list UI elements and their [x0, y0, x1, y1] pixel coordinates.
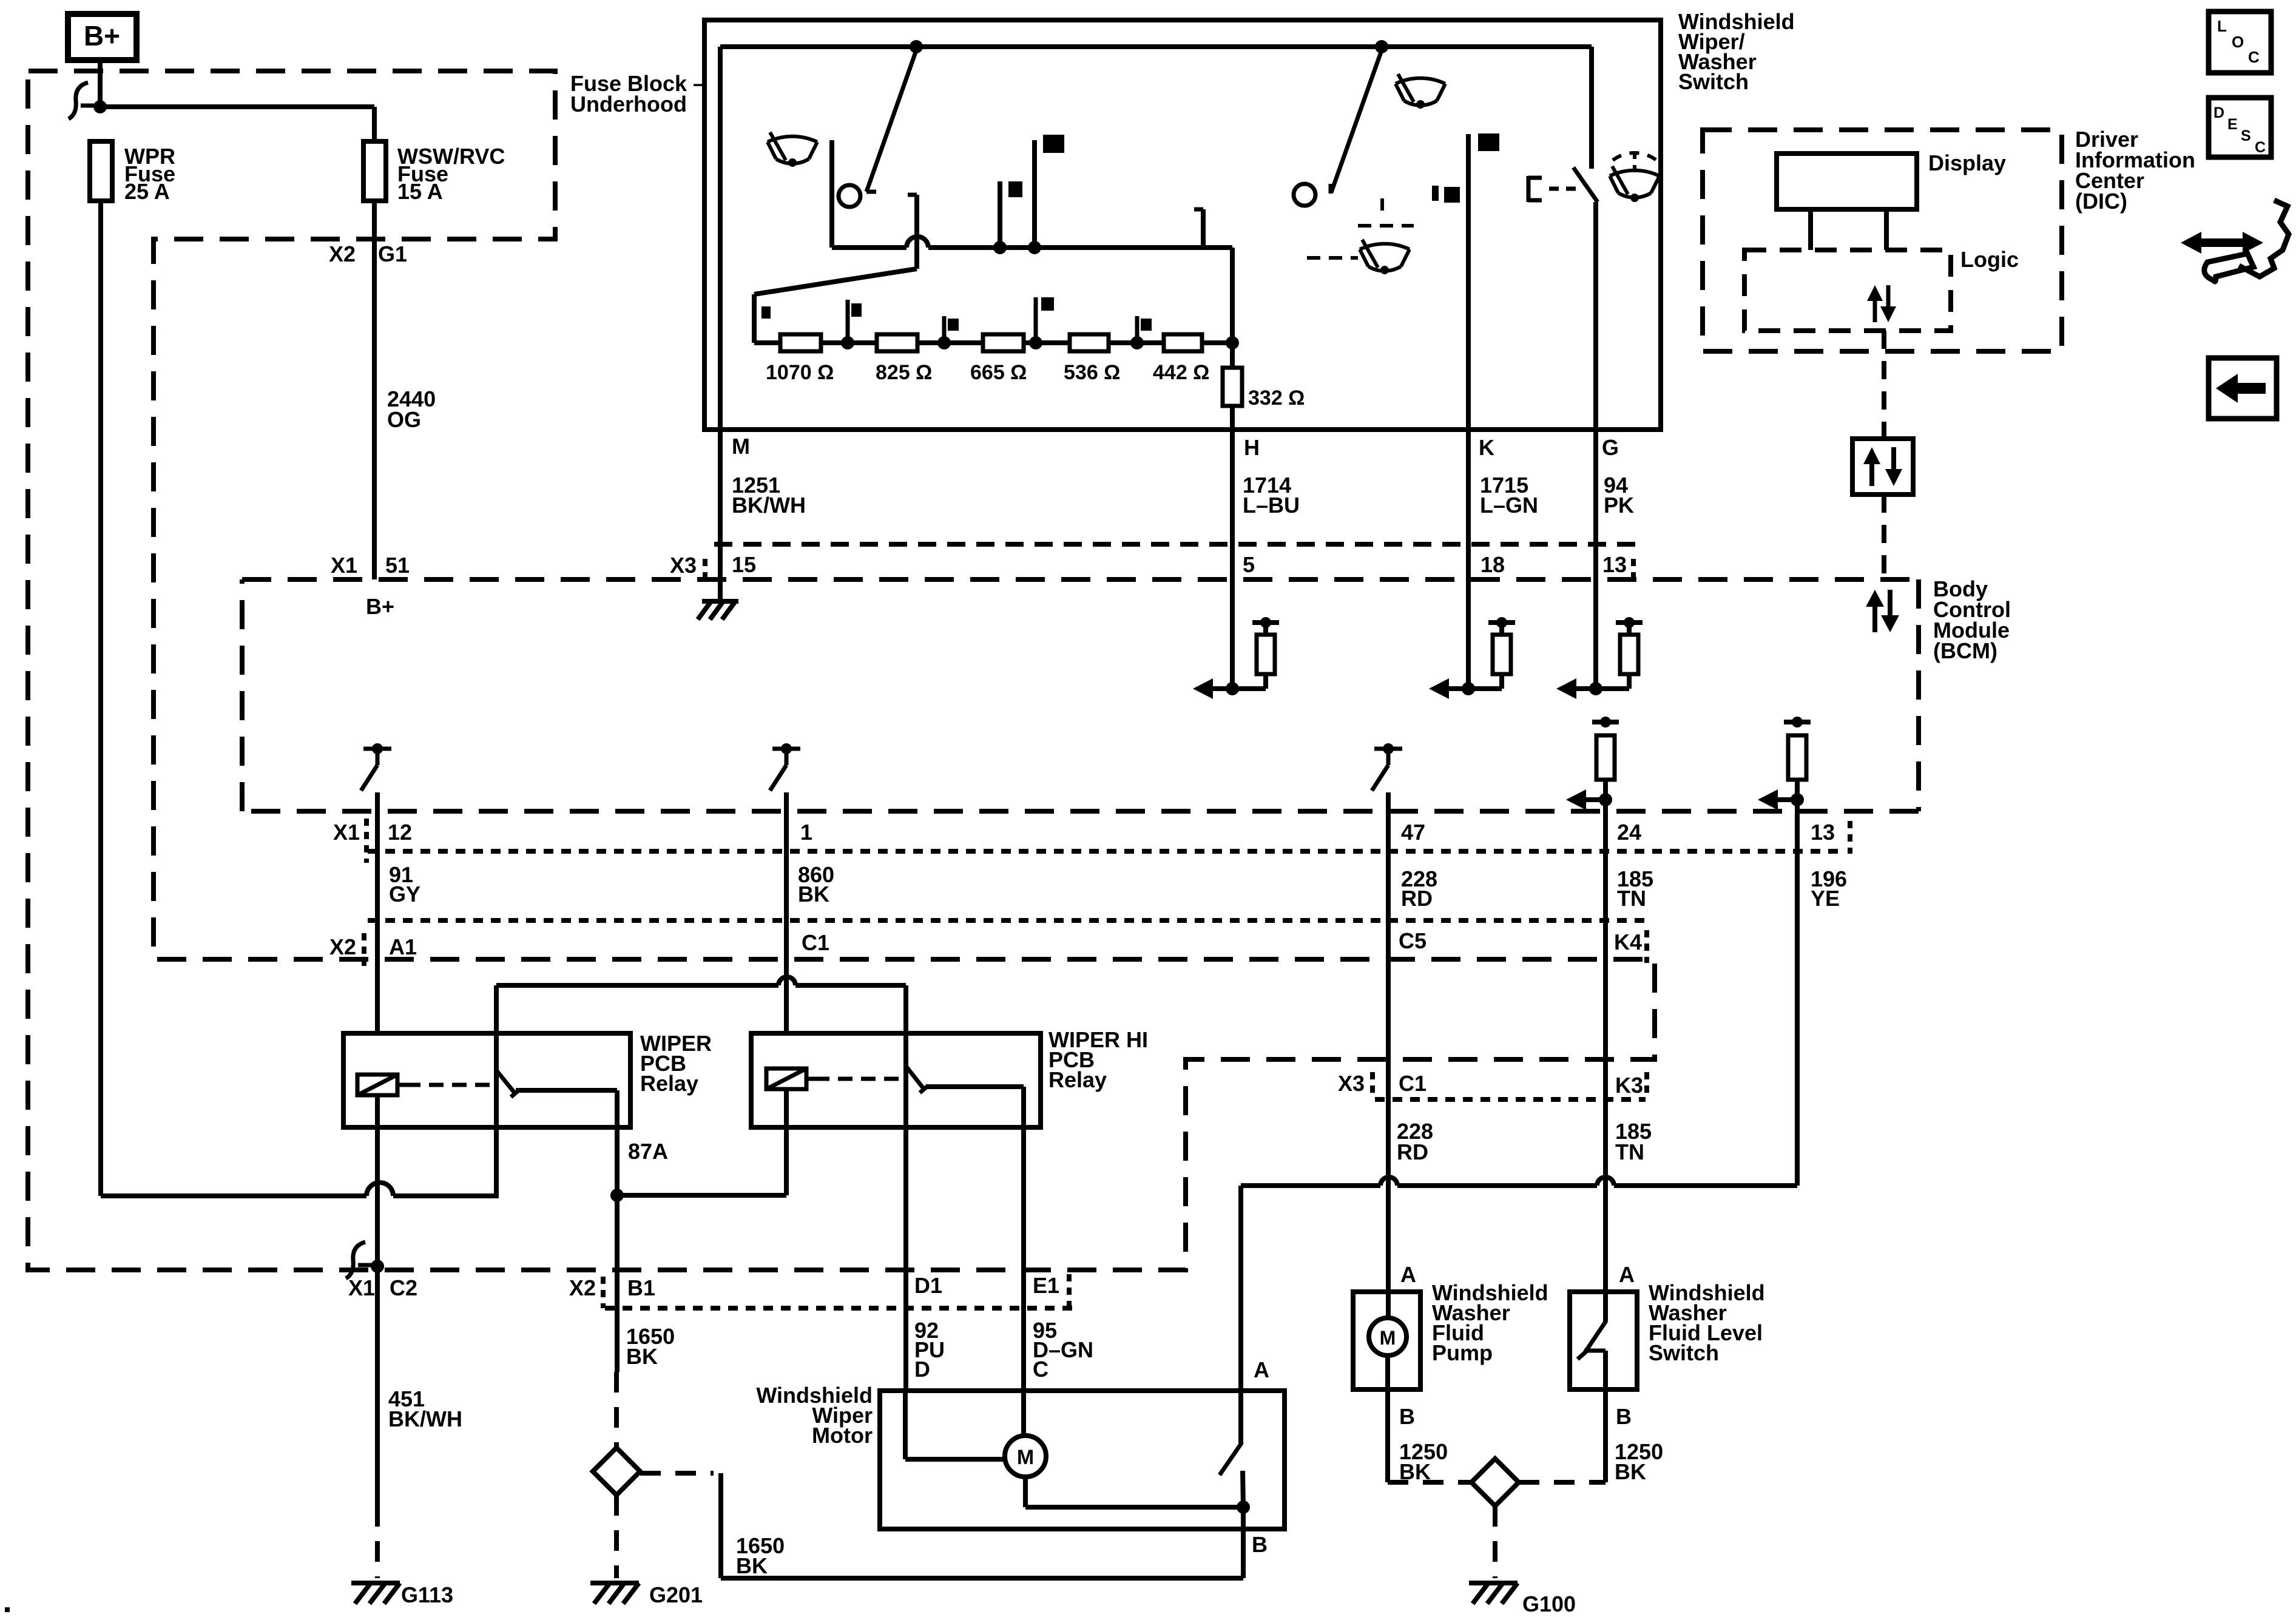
- wire level switch to splice: [1519, 1480, 1606, 1485]
- relay WIPER coil: [357, 1075, 397, 1095]
- level switch symbol: [1603, 1292, 1608, 1322]
- display stems: [1808, 209, 1813, 250]
- page artifact dot: [5, 1607, 10, 1612]
- in-line connector above X1-C2: [346, 1242, 365, 1278]
- logic serial arrows: [1873, 297, 1877, 322]
- svg-text:D: D: [2213, 104, 2224, 121]
- relay WIPER contact 87A: [516, 1088, 617, 1093]
- svg-text:B+: B+: [366, 594, 394, 619]
- wire switch internal feed bus: [720, 44, 1592, 49]
- wire BCM pin 12 to relay coil: [375, 792, 380, 1075]
- washer switch symbol E: [1527, 176, 1531, 202]
- svg-text:X3: X3: [670, 553, 697, 578]
- svg-text:Logic: Logic: [1960, 247, 2019, 272]
- svg-text:M: M: [732, 434, 750, 459]
- wire BCM pin 24 down: [1603, 813, 1608, 1292]
- svg-text:X2: X2: [329, 934, 356, 959]
- svg-text:Motor: Motor: [812, 1423, 873, 1448]
- BCM driver stage at pin wire x=2962: resistor and output arrow: [1784, 720, 1811, 724]
- svg-text:D1: D1: [914, 1273, 942, 1298]
- splice diamond near G201: [593, 1448, 640, 1495]
- svg-text:G100: G100: [1522, 1592, 1576, 1616]
- svg-text:13: 13: [1811, 820, 1835, 845]
- svg-text:D: D: [914, 1357, 930, 1382]
- svg-text:A: A: [1254, 1357, 1269, 1382]
- svg-text:M: M: [1017, 1446, 1034, 1469]
- svg-text:1: 1: [800, 820, 812, 845]
- fuse WPR 25A: [90, 141, 112, 201]
- wire WSW fuse down to BCM X1-51: [372, 201, 377, 579]
- svg-text:C5: C5: [1399, 928, 1427, 953]
- svg-text:S: S: [2241, 127, 2251, 144]
- svg-text:A: A: [1400, 1262, 1416, 1287]
- contact rail horizontal with hop over OFF rail: [832, 245, 907, 250]
- svg-text:(DIC): (DIC): [2075, 189, 2127, 214]
- relay WIPER blade: [496, 1070, 515, 1093]
- wire motor pin D to motor: [903, 1391, 908, 1459]
- Fuse Block - Underhood dashed enclosure: [28, 71, 1655, 1270]
- svg-text:TN: TN: [1617, 886, 1646, 911]
- resistor 442 ohm: [1164, 334, 1202, 351]
- icon LOC box: [2209, 12, 2271, 73]
- svg-text:1070 Ω: 1070 Ω: [766, 361, 834, 384]
- windshield wiper motor box: [880, 1391, 1285, 1529]
- svg-text:E: E: [2227, 116, 2238, 133]
- BCM serial data arrows: [1872, 603, 1877, 632]
- svg-text:L–BU: L–BU: [1243, 493, 1300, 518]
- svg-text:442 Ω: 442 Ω: [1153, 361, 1209, 384]
- svg-text:X1: X1: [331, 553, 357, 578]
- wire BCM pin 47 down: [1386, 792, 1391, 1318]
- wire park signal to BCM 196 YE: [1241, 1183, 1380, 1188]
- svg-text:(BCM): (BCM): [1933, 638, 1997, 663]
- svg-text:Switch: Switch: [1649, 1340, 1719, 1365]
- wire splice to G201: [614, 1495, 619, 1578]
- relay WIPER HI PCB box: [751, 1033, 1041, 1127]
- contact MIST circle: [839, 185, 860, 207]
- svg-text:51: 51: [385, 553, 410, 578]
- relay WIPER HI contact: [926, 1084, 1024, 1089]
- svg-text:H: H: [1244, 435, 1260, 460]
- svg-text:RD: RD: [1401, 886, 1433, 911]
- connector line below X1: [368, 849, 1845, 854]
- wire G to BCM pin 13: [1593, 430, 1598, 689]
- node ladder tap 1: [841, 336, 854, 349]
- svg-text:BK/WH: BK/WH: [388, 1406, 462, 1431]
- svg-text:YE: YE: [1811, 886, 1840, 911]
- svg-text:B1: B1: [627, 1275, 655, 1300]
- switch blade OFF/MIST: [866, 50, 916, 192]
- motor M circle: [1005, 1436, 1046, 1477]
- park switch blade: [1238, 1186, 1243, 1443]
- svg-text:C: C: [2248, 48, 2260, 66]
- svg-text:Relay: Relay: [640, 1071, 698, 1096]
- svg-text:Display: Display: [1928, 150, 2006, 175]
- wire 451 to G113: [375, 1270, 380, 1506]
- wire relay 87A to ground bus: [617, 1193, 786, 1198]
- icon back arrow box: [2209, 358, 2277, 419]
- switch INT wiper arm diagonal: [754, 269, 917, 294]
- svg-text:E1: E1: [1033, 1273, 1059, 1298]
- dashed serial data link upper: [1882, 331, 1886, 439]
- BCM input stage at pin wire x=2031: pull-up resistor and input arrow: [1193, 678, 1213, 699]
- wire pump B: [1385, 1355, 1390, 1482]
- BCM input stage at pin wire x=2420: pull-up resistor and input arrow: [1429, 678, 1449, 699]
- wire splice branch to motor B: [640, 1471, 714, 1476]
- wire pump to splice G100: [1388, 1480, 1471, 1485]
- svg-text:15 A: 15 A: [397, 179, 443, 204]
- svg-text:BK: BK: [736, 1553, 768, 1578]
- contact square WASH a: [1478, 133, 1499, 151]
- svg-text:X1: X1: [333, 820, 360, 845]
- svg-text:C: C: [2255, 139, 2266, 156]
- wire ladder to 332 ohm: [1202, 340, 1232, 345]
- svg-text:C1: C1: [802, 930, 829, 955]
- wiper icon low speed: [768, 137, 817, 142]
- svg-text:X3: X3: [1338, 1071, 1365, 1096]
- node ladder tap 4: [1130, 336, 1144, 349]
- svg-text:Underhood: Underhood: [570, 92, 687, 116]
- washer pump motor circle: [1369, 1318, 1406, 1355]
- svg-text:A1: A1: [389, 934, 417, 959]
- fuse WSW/RVC 15A: [363, 141, 386, 201]
- icon navigate arrow and wrench: [2192, 238, 2252, 247]
- power node B+ box: [68, 14, 137, 60]
- wire M to ground: [718, 430, 723, 601]
- svg-text:C2: C2: [390, 1275, 417, 1300]
- relay WIPER PCB box: [343, 1033, 630, 1127]
- contact LO stub: [1028, 241, 1041, 254]
- svg-text:G113: G113: [401, 1582, 453, 1607]
- resistor 665 ohm: [983, 334, 1024, 351]
- svg-text:X2: X2: [569, 1275, 596, 1300]
- splice diamond G100: [1471, 1459, 1519, 1506]
- svg-text:332 Ω: 332 Ω: [1248, 387, 1305, 410]
- svg-text:BK: BK: [798, 882, 829, 906]
- relay WIPER HI blade: [906, 1066, 923, 1089]
- wire B+ down to splice: [98, 60, 103, 107]
- svg-text:G1: G1: [378, 241, 407, 266]
- BCM input stage at pin wire x=2630: pull-up resistor and input arrow: [1556, 678, 1576, 699]
- wire WIPER coil low side: [375, 1095, 380, 1270]
- relay WIPER armature: [494, 985, 499, 1196]
- BCM driver stage at pin wire x=2646: resistor and output arrow: [1592, 720, 1619, 724]
- dashed serial data link lower: [1882, 495, 1886, 579]
- svg-text:B+: B+: [84, 20, 120, 52]
- svg-text:665 Ω: 665 Ω: [970, 361, 1027, 384]
- wire WPR fuse down to relay bus: [98, 201, 103, 1196]
- node splice at B+ feed: [93, 100, 107, 113]
- svg-text:K: K: [1479, 435, 1494, 460]
- wiper icon intermittent with dashes: [1380, 198, 1384, 211]
- wire BCM pin 1 to relay coil: [784, 792, 789, 1067]
- wire B+ bus from WPR fuse to relay armature: [101, 1193, 366, 1198]
- in-line connector at B+ splice: [69, 83, 88, 119]
- connector row upper line: [714, 542, 1636, 547]
- wire pump A stub: [1386, 1292, 1391, 1318]
- resistor 1070 ohm: [780, 334, 821, 351]
- wire armature link between relays: [496, 983, 778, 988]
- svg-text:18: 18: [1481, 552, 1505, 577]
- contact OFF rail: [908, 193, 917, 197]
- switch blade HI: [1331, 50, 1382, 192]
- Body Control Module dashed outline: [242, 577, 1919, 582]
- svg-text:13: 13: [1602, 552, 1627, 577]
- svg-text:25 A: 25 A: [124, 179, 170, 204]
- svg-text:M: M: [1380, 1327, 1396, 1349]
- svg-text:BK: BK: [626, 1344, 658, 1369]
- svg-text:5: 5: [1243, 552, 1255, 577]
- node ladder tap 2: [937, 336, 951, 349]
- svg-text:87A: 87A: [628, 1139, 668, 1164]
- serial data arrows box: [1852, 439, 1913, 495]
- windshield washer fluid pump box: [1353, 1292, 1420, 1389]
- svg-text:BK: BK: [1615, 1459, 1646, 1484]
- svg-text:A: A: [1619, 1262, 1635, 1287]
- windshield washer fluid level switch box: [1570, 1292, 1637, 1389]
- DIC logic dashed box: [1744, 250, 1951, 331]
- svg-text:OG: OG: [387, 407, 421, 432]
- wire motor low side: [1023, 1477, 1028, 1507]
- relay WIPER HI coil: [766, 1068, 806, 1089]
- wiper icon high speed: [1396, 78, 1445, 84]
- wire splice to WSW/RVC fuse: [100, 104, 374, 109]
- node ladder tap 3: [1029, 336, 1042, 349]
- node bus to HI blade: [1375, 40, 1388, 53]
- wire B1 to splice: [615, 1270, 620, 1372]
- svg-text:L: L: [2217, 17, 2227, 35]
- svg-text:825 Ω: 825 Ω: [876, 361, 932, 384]
- svg-text:24: 24: [1617, 820, 1641, 845]
- ground G100: [1469, 1581, 1518, 1585]
- contact rail riser LO: [829, 140, 834, 248]
- switch blade washer: [1573, 167, 1598, 202]
- svg-text:RD: RD: [1397, 1139, 1428, 1164]
- svg-text:B: B: [1252, 1532, 1268, 1557]
- svg-text:L–GN: L–GN: [1480, 493, 1538, 518]
- svg-text:Relay: Relay: [1048, 1067, 1107, 1092]
- svg-text:C1: C1: [1399, 1071, 1427, 1096]
- ground G201: [590, 1581, 639, 1585]
- contact HI circle: [1294, 184, 1315, 206]
- wire BCM pin 13 down: [1795, 813, 1800, 1186]
- resistor ladder bus: [754, 340, 1232, 345]
- svg-text:GY: GY: [389, 882, 420, 906]
- resistor 536 ohm: [1070, 334, 1109, 351]
- node motor park junction: [1237, 1501, 1250, 1514]
- svg-text:536 Ω: 536 Ω: [1064, 361, 1120, 384]
- svg-text:K4: K4: [1614, 930, 1642, 954]
- wire splice to G100: [1493, 1506, 1497, 1578]
- svg-text:G: G: [1602, 435, 1619, 460]
- resistor 825 ohm: [877, 334, 917, 351]
- svg-text:TN: TN: [1615, 1139, 1644, 1164]
- connector line above X2: [368, 918, 1646, 923]
- connector line below X3 row: [1375, 1097, 1646, 1102]
- ground G113: [351, 1581, 400, 1585]
- resistor 332 ohm: [1223, 368, 1242, 406]
- windshield wiper/washer switch box: [704, 20, 1661, 430]
- wire motor pin C to motor: [1021, 1391, 1026, 1436]
- svg-text:Pump: Pump: [1432, 1340, 1493, 1365]
- svg-text:X2: X2: [329, 241, 356, 266]
- svg-text:12: 12: [388, 820, 412, 845]
- connector line below B1 D1 E1: [605, 1306, 1080, 1311]
- svg-text:47: 47: [1401, 820, 1425, 845]
- wire level switch B: [1603, 1389, 1608, 1482]
- svg-text:O: O: [2232, 33, 2244, 51]
- DIC display box: [1777, 154, 1917, 209]
- svg-text:X1: X1: [348, 1275, 375, 1300]
- wire K to BCM pin 18: [1466, 430, 1471, 689]
- svg-text:PK: PK: [1604, 493, 1634, 518]
- wire K pin riser: [1466, 134, 1471, 430]
- svg-text:15: 15: [732, 552, 756, 577]
- svg-text:B: B: [1399, 1404, 1415, 1429]
- contact INT stub: [993, 241, 1007, 254]
- Driver Information Center dashed box: [1703, 130, 2062, 351]
- icon DESC box: [2209, 98, 2271, 157]
- svg-text:G201: G201: [649, 1582, 703, 1607]
- contact square WASH b: [1432, 186, 1439, 201]
- relay WIPER HI armature: [903, 985, 908, 1391]
- node 87A junction: [610, 1189, 624, 1202]
- contact HI stub: [1201, 209, 1206, 250]
- wire bus drop to washer switch: [1589, 47, 1594, 169]
- ground at BCM X3-15: [702, 599, 738, 604]
- svg-text:K3: K3: [1615, 1073, 1643, 1098]
- node bus to OFF blade: [910, 40, 923, 53]
- svg-text:B: B: [1616, 1404, 1632, 1429]
- washer spray icon: [1610, 170, 1660, 176]
- wire G pin riser: [1593, 202, 1598, 430]
- BCM internal switch at pin wire x=2288: [1374, 747, 1402, 751]
- wire H to BCM pin 5: [1230, 406, 1235, 689]
- wire motor B down to 1650 bus: [1241, 1507, 1246, 1578]
- svg-text:C: C: [1033, 1357, 1048, 1382]
- wire HI coil low side: [784, 1090, 789, 1195]
- BCM internal switch at pin wire x=622: [363, 747, 391, 751]
- svg-text:BK/WH: BK/WH: [732, 493, 806, 518]
- svg-text:Switch: Switch: [1678, 69, 1749, 94]
- BCM internal switch at pin wire x=1296: [772, 747, 800, 751]
- wire M pin riser: [718, 47, 723, 430]
